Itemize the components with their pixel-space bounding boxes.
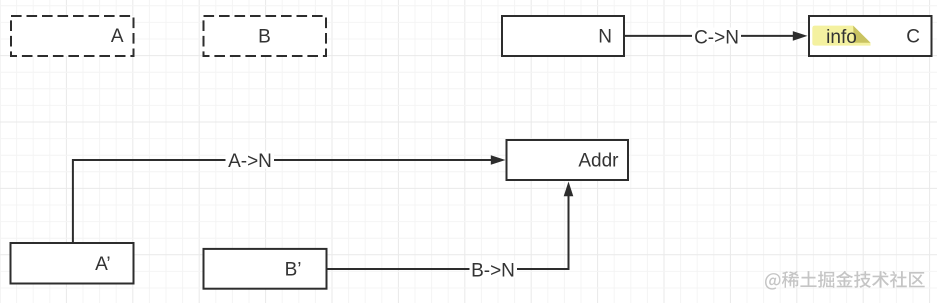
node B' (solid box) xyxy=(204,249,327,289)
node C (info box) xyxy=(809,16,932,56)
svg-text:B->N: B->N xyxy=(471,261,515,282)
svg-text:C: C xyxy=(906,27,920,48)
node Addr (solid box) xyxy=(507,140,629,180)
watermark @稀土掘金技术社区 xyxy=(765,271,925,290)
highlight marker on info xyxy=(812,26,870,46)
node B (dashed box) xyxy=(204,16,327,56)
svg-text:Addr: Addr xyxy=(578,150,619,171)
wire C->N (arrow from N to info box) xyxy=(625,27,808,48)
node N (solid box) xyxy=(502,16,624,56)
wire B->N (from B' right then up into Addr) xyxy=(327,182,574,282)
wire A->N (from A' up then right into Addr) xyxy=(73,151,506,243)
svg-text:A’: A’ xyxy=(95,254,110,275)
svg-text:info: info xyxy=(826,27,857,48)
svg-text:B’: B’ xyxy=(285,260,302,281)
svg-text:N: N xyxy=(598,26,612,47)
node A (dashed box) xyxy=(11,16,134,56)
svg-text:C->N: C->N xyxy=(694,27,739,48)
svg-text:B: B xyxy=(258,26,271,47)
svg-text:A: A xyxy=(111,26,124,47)
node A' (solid box) xyxy=(11,243,134,284)
svg-text:A->N: A->N xyxy=(228,151,272,172)
